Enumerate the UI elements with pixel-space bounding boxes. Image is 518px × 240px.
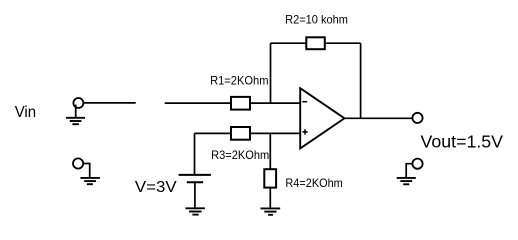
svg-text:Vin: Vin	[15, 104, 36, 121]
wire left terminal stem	[83, 164, 90, 178]
wire feedback left vertical	[270, 43, 272, 103]
resistor R4	[264, 169, 276, 187]
wire to R1 (after gap)	[165, 102, 231, 104]
op-amp plus pin mark	[302, 129, 307, 134]
svg-text:R2=10 kohm: R2=10 kohm	[285, 12, 348, 26]
wire op-amp output	[345, 117, 413, 119]
ground under R4	[261, 208, 281, 214]
wire feedback top left	[271, 42, 307, 44]
wire battery to R3	[195, 132, 232, 134]
svg-text:R3=2KOhm: R3=2KOhm	[211, 148, 269, 162]
node unused terminal left	[73, 158, 83, 168]
node Vout terminal circle	[412, 113, 422, 123]
wire feedback top right	[325, 42, 361, 44]
resistor R1	[231, 97, 250, 110]
resistor R3	[231, 127, 250, 140]
battery V1 minus plate	[187, 181, 203, 183]
ground under Vin terminal	[66, 118, 85, 124]
svg-text:R1=2KOhm: R1=2KOhm	[210, 73, 268, 87]
ground under right terminal	[397, 178, 416, 184]
resistor R2	[306, 37, 325, 49]
node right ground terminal circle	[412, 159, 422, 169]
svg-text:V=3V: V=3V	[135, 179, 177, 196]
wire R1 to op-amp minus input	[250, 102, 300, 104]
op-amp U1	[300, 88, 344, 148]
node Vin terminal circle	[73, 98, 83, 108]
ground under battery	[186, 208, 205, 214]
wire battery to ground	[194, 182, 196, 208]
wire R4 to ground	[269, 188, 271, 209]
wire from Vin terminal	[84, 102, 136, 104]
svg-text:Vout=1.5V: Vout=1.5V	[421, 131, 504, 151]
wire battery top vertical	[194, 133, 196, 175]
wire right terminal stem	[406, 164, 412, 178]
wire feedback right vertical	[360, 43, 362, 118]
wire R4 tap vertical	[269, 133, 271, 169]
wire Vin terminal stem to ground	[75, 105, 77, 118]
ground under left terminal	[80, 178, 100, 184]
svg-text:R4=2KOhm: R4=2KOhm	[285, 176, 342, 190]
wire R3 to op-amp plus input	[250, 132, 300, 134]
op-amp minus pin mark	[302, 101, 307, 103]
battery V1 plus plate	[179, 174, 211, 176]
